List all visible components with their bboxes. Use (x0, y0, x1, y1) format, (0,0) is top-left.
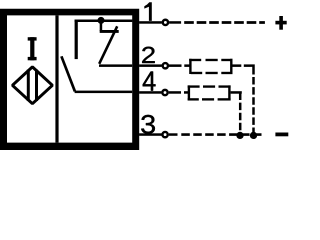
label 2 (142, 47, 155, 63)
load box on wire 4 (188, 85, 231, 100)
wire terminal1 right stub (169, 21, 181, 24)
junction dot on pin1 line (98, 17, 105, 24)
load box on wire 2 (189, 59, 232, 74)
junction dot wire4/minus rail (236, 132, 243, 139)
wire terminal2 left (139, 64, 162, 67)
pin4 internal wire (75, 91, 133, 94)
wire4 solid run after load box (231, 91, 242, 94)
wire4 elbow corner down (239, 92, 242, 100)
wire2 dash to elbow (244, 64, 251, 67)
wire terminal1 left (139, 21, 162, 24)
NC contact bar (100, 30, 119, 33)
pin2 internal wire (99, 64, 132, 67)
dashed wire to minus (181, 133, 261, 136)
dashed wire to plus (184, 21, 265, 24)
terminal circle 1 (163, 20, 168, 25)
NC contact arm (99, 26, 117, 64)
wire terminal3 right stub (169, 133, 178, 136)
wire terminal4 left (139, 91, 161, 94)
NO switch arm (61, 56, 75, 91)
junction dot wire2/minus rail (250, 132, 257, 139)
wire2 elbow corner down (250, 66, 253, 75)
terminal circle 2 (163, 63, 168, 68)
minus sign (275, 133, 288, 137)
diamond chord left (27, 70, 30, 101)
drop from junction dot (100, 21, 103, 32)
wire2 solid run after load box (232, 64, 241, 67)
dash before load box 2wire (184, 64, 189, 67)
pin1 internal wire (75, 20, 133, 23)
dash before load box 4wire (184, 91, 188, 94)
wire terminal3 left (139, 133, 161, 136)
terminal circle 4 (162, 90, 167, 95)
fixed contact vertical from pin1 (75, 20, 78, 60)
wire terminal2 right stub (169, 64, 182, 67)
wire terminal4 right stub (169, 91, 181, 94)
wire2 vertical dashed drop (252, 77, 255, 135)
label 3 (141, 115, 155, 134)
wire4 vertical dashed drop (239, 103, 242, 136)
diamond chord right (35, 70, 38, 101)
label 4 (143, 72, 156, 91)
sensor diamond (12, 67, 52, 104)
terminal circle 3 (162, 132, 167, 137)
sensor housing outline (0, 9, 139, 150)
inductive symbol letter I (28, 37, 37, 60)
plus sign (275, 16, 286, 30)
compartment divider (55, 15, 58, 142)
label 1 (144, 2, 152, 21)
